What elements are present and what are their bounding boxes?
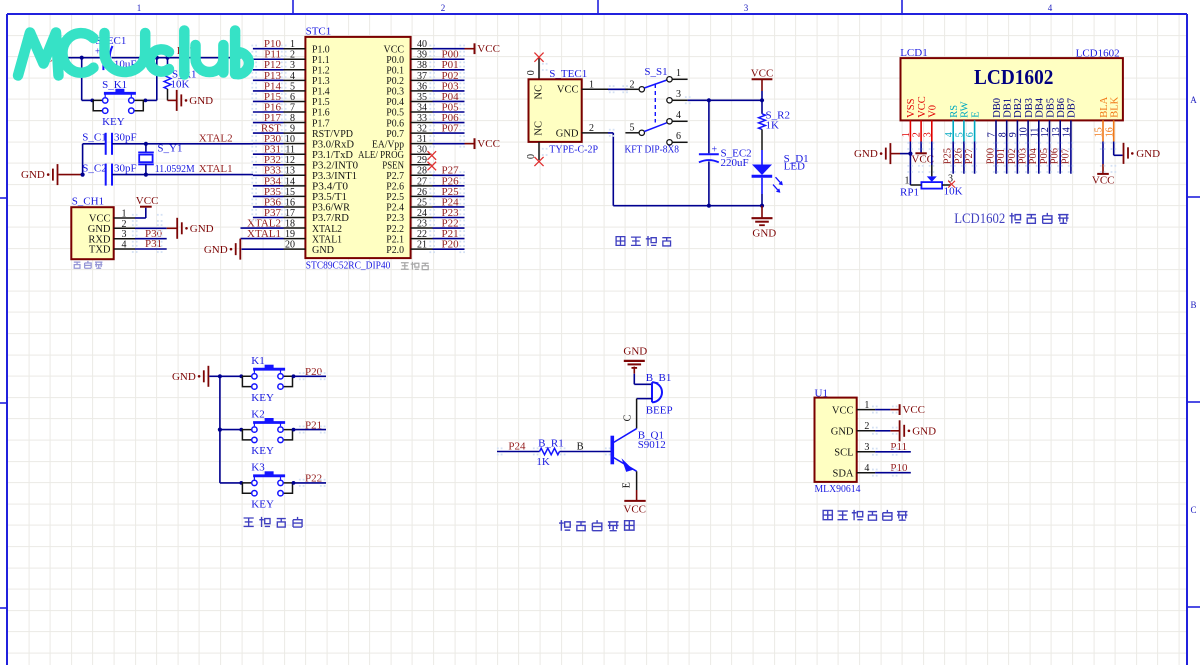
switch S_S1 pole 2 bbox=[625, 88, 638, 90]
switch S_S1 throw 4 bbox=[667, 119, 672, 124]
svg-text:B_B1: B_B1 bbox=[646, 372, 672, 384]
svg-text:9: 9 bbox=[1008, 132, 1019, 137]
svg-text:KEY: KEY bbox=[102, 116, 125, 128]
LCD pin 8 wire net P01 bbox=[1006, 142, 1008, 174]
svg-text:11.0592M: 11.0592M bbox=[155, 163, 195, 175]
power port VCC (MCU pin 40) bbox=[474, 43, 476, 54]
svg-text:P3.6/WR: P3.6/WR bbox=[312, 203, 350, 214]
svg-text:220uF: 220uF bbox=[721, 157, 749, 169]
svg-text:GND: GND bbox=[556, 129, 579, 140]
wire TEC1 GND down-right bbox=[608, 132, 613, 134]
svg-text:K1: K1 bbox=[251, 355, 264, 367]
svg-text:30pF: 30pF bbox=[114, 132, 137, 144]
svg-text:BLK: BLK bbox=[1110, 96, 1121, 117]
key K2 actuator bar bbox=[253, 421, 285, 424]
key K2 contacts bbox=[242, 430, 251, 440]
svg-text:VCC: VCC bbox=[477, 43, 500, 55]
svg-text:LCD1: LCD1 bbox=[900, 47, 928, 59]
svg-text:S_C2: S_C2 bbox=[82, 163, 106, 175]
svg-text:P1.7: P1.7 bbox=[312, 118, 330, 129]
svg-text:VSS: VSS bbox=[906, 98, 917, 117]
svg-text:P27: P27 bbox=[964, 148, 975, 164]
svg-text:3: 3 bbox=[864, 442, 869, 453]
sensor U1 MLX90614 body bbox=[815, 398, 857, 482]
wire P24 to base resistor bbox=[497, 451, 540, 453]
resistor S_R1 10K bbox=[167, 58, 169, 71]
U1 pin2 wire to GND bbox=[875, 430, 890, 432]
power port VCC (LCD) bbox=[915, 152, 926, 154]
svg-text:LCD1602: LCD1602 bbox=[954, 211, 1005, 227]
wire VCC to EC1 bbox=[63, 57, 104, 59]
svg-text:P07: P07 bbox=[442, 123, 460, 135]
svg-text:C: C bbox=[1190, 505, 1196, 515]
RP1 pin 3 bbox=[942, 184, 951, 186]
svg-text:P3.5/T1: P3.5/T1 bbox=[312, 192, 347, 203]
svg-text:P2.6: P2.6 bbox=[386, 182, 404, 193]
capacitor S_C1 30pF bbox=[105, 133, 107, 155]
LCD pin2 VCC wire bbox=[920, 142, 922, 154]
svg-text:STC89C52RC_DIP40: STC89C52RC_DIP40 bbox=[306, 259, 391, 271]
wire to K3 bbox=[220, 482, 243, 484]
LCD pin 7 wire net P00 bbox=[995, 142, 997, 174]
no-ERC cross TEC1 top pin bbox=[538, 58, 540, 80]
ground GND (S_CH1) bbox=[176, 218, 178, 239]
svg-text:P20: P20 bbox=[442, 239, 460, 251]
svg-text:10: 10 bbox=[1019, 127, 1030, 137]
svg-text:DB5: DB5 bbox=[1045, 98, 1056, 118]
svg-text:A: A bbox=[1190, 95, 1197, 105]
svg-text:GND: GND bbox=[172, 371, 196, 383]
caption buzzer circuit bbox=[559, 520, 570, 531]
svg-text:P10: P10 bbox=[890, 462, 908, 474]
svg-text:P2.0: P2.0 bbox=[386, 245, 404, 256]
key K1 contacts bbox=[242, 376, 251, 386]
svg-text:7: 7 bbox=[987, 132, 998, 137]
svg-text:NC: NC bbox=[534, 121, 545, 136]
wire to K1 bbox=[220, 375, 243, 377]
wire EC1 to RST net bbox=[112, 57, 246, 59]
svg-text:XTAL2: XTAL2 bbox=[312, 224, 342, 235]
switch S_S1 pole 5 bbox=[625, 132, 638, 134]
wire XTAL2 net bbox=[112, 143, 253, 145]
LCD pin 10 wire net P03 bbox=[1027, 142, 1029, 174]
svg-text:GND: GND bbox=[854, 148, 878, 160]
svg-text:P03: P03 bbox=[1018, 148, 1029, 164]
svg-text:DB3: DB3 bbox=[1024, 98, 1035, 118]
svg-text:P3.2/INT0: P3.2/INT0 bbox=[312, 160, 358, 171]
switch S_S1 throw 6 bbox=[667, 140, 672, 145]
LCD pin3 V0 wire to RP1 wiper bbox=[931, 142, 933, 166]
svg-text:S_CH1: S_CH1 bbox=[72, 196, 104, 208]
crystal S_Y1 11.0592M bbox=[145, 144, 147, 153]
svg-text:RS: RS bbox=[949, 105, 960, 118]
svg-text:4: 4 bbox=[864, 463, 869, 474]
connector S_CH1 body bbox=[71, 207, 113, 259]
svg-text:VCC: VCC bbox=[902, 404, 925, 416]
potentiometer RP1 wiper arrow bbox=[927, 176, 937, 182]
wire to C1 bbox=[83, 143, 106, 145]
svg-text:S_C1: S_C1 bbox=[82, 132, 106, 144]
svg-text:XTAL1: XTAL1 bbox=[312, 234, 342, 245]
svg-text:DB1: DB1 bbox=[1003, 98, 1014, 118]
svg-text:10K: 10K bbox=[944, 186, 963, 198]
svg-text:P21: P21 bbox=[305, 419, 322, 431]
svg-text:4: 4 bbox=[1048, 3, 1053, 13]
svg-text:P3.7/RD: P3.7/RD bbox=[312, 213, 349, 224]
svg-text:VCC: VCC bbox=[917, 96, 928, 118]
svg-text:BLA: BLA bbox=[1099, 96, 1110, 117]
svg-text:VCC: VCC bbox=[557, 85, 579, 96]
ground GND (power circuit) bbox=[761, 206, 763, 219]
wire K1 to net P20 bbox=[293, 375, 327, 377]
wire to key left contact bbox=[82, 99, 93, 101]
switch S_S1 throw 1 bbox=[667, 77, 672, 82]
svg-text:P0.6: P0.6 bbox=[386, 118, 404, 129]
svg-text:STC1: STC1 bbox=[306, 25, 332, 37]
ground GND (LCD backlight) bbox=[1123, 143, 1125, 164]
svg-text:12: 12 bbox=[1040, 127, 1051, 137]
LCD1602 body bbox=[901, 58, 1123, 120]
wire XTAL1 net bbox=[112, 174, 253, 176]
svg-text:DB2: DB2 bbox=[1013, 98, 1024, 118]
svg-text:LCD1602: LCD1602 bbox=[974, 65, 1053, 89]
svg-text:S9012: S9012 bbox=[638, 439, 666, 451]
ground GND (MCU pin20) bbox=[239, 239, 241, 260]
svg-text:GND: GND bbox=[189, 95, 213, 107]
svg-text:GND: GND bbox=[204, 244, 228, 256]
svg-text:P24: P24 bbox=[508, 441, 526, 453]
svg-text:GND: GND bbox=[88, 224, 111, 235]
ground GND (reset) bbox=[168, 99, 177, 101]
wire keys ground rail bbox=[219, 376, 221, 483]
svg-text:S_K1: S_K1 bbox=[102, 79, 127, 91]
svg-text:P02: P02 bbox=[1007, 148, 1018, 164]
LCD pin 14 wire net P07 bbox=[1070, 142, 1072, 174]
svg-text:3: 3 bbox=[744, 3, 749, 13]
svg-text:P05: P05 bbox=[1039, 148, 1050, 164]
svg-text:10K: 10K bbox=[171, 79, 190, 91]
LCD pin 11 wire net P04 bbox=[1038, 142, 1040, 174]
svg-text:30pF: 30pF bbox=[114, 163, 137, 175]
LCD pin16 BLK wire to GND bbox=[1113, 142, 1115, 156]
svg-text:P2.3: P2.3 bbox=[386, 213, 404, 224]
svg-text:P3.3/INT1: P3.3/INT1 bbox=[312, 171, 357, 182]
no-ERC cross pin 29 bbox=[428, 162, 437, 171]
svg-text:XTAL1: XTAL1 bbox=[247, 228, 281, 240]
svg-text:S_Y1: S_Y1 bbox=[157, 143, 182, 155]
junction dots reset rail bbox=[80, 56, 84, 60]
svg-text:P20: P20 bbox=[305, 366, 323, 378]
svg-text:TXD: TXD bbox=[89, 245, 111, 256]
wire from key right contact bbox=[145, 99, 157, 101]
wire power bottom rail bbox=[613, 205, 762, 207]
power port VCC (S_CH1) bbox=[140, 206, 152, 208]
svg-text:B: B bbox=[577, 442, 584, 453]
svg-text:MLX90614: MLX90614 bbox=[815, 483, 861, 495]
S_CH1 pin1 wire to VCC bbox=[135, 217, 146, 219]
svg-text:P3.0/RxD: P3.0/RxD bbox=[312, 139, 354, 150]
no-ERC cross pin 30 bbox=[428, 151, 437, 160]
svg-text:P22: P22 bbox=[305, 473, 322, 485]
svg-text:P1.0: P1.0 bbox=[312, 44, 330, 55]
svg-text:LED: LED bbox=[784, 161, 805, 173]
svg-text:V0: V0 bbox=[928, 105, 939, 118]
svg-text:4: 4 bbox=[944, 132, 955, 137]
svg-text:1: 1 bbox=[676, 68, 681, 79]
svg-text:DB0: DB0 bbox=[992, 98, 1003, 118]
LCD pin 12 wire net P05 bbox=[1049, 142, 1051, 174]
svg-text:DB6: DB6 bbox=[1056, 98, 1067, 118]
power port VCC (buzzer) bbox=[624, 500, 645, 502]
U1 pin4 wire net P10 bbox=[875, 472, 911, 474]
svg-text:P0.7: P0.7 bbox=[386, 129, 404, 140]
svg-text:VCC: VCC bbox=[751, 68, 774, 80]
svg-text:DB4: DB4 bbox=[1035, 97, 1046, 118]
svg-text:VCC: VCC bbox=[384, 44, 405, 55]
wire buzzer to collector bbox=[637, 398, 652, 400]
svg-text:E: E bbox=[970, 111, 981, 117]
svg-text:P1.4: P1.4 bbox=[312, 87, 330, 98]
svg-text:VCC: VCC bbox=[1092, 175, 1115, 187]
wire ground to buzzer bbox=[633, 374, 635, 385]
svg-text:2: 2 bbox=[589, 123, 594, 134]
wire emitter to VCC bbox=[636, 471, 638, 490]
svg-text:P00: P00 bbox=[985, 148, 996, 164]
caption power circuit bbox=[616, 237, 625, 246]
switch S_S1 throw 3 bbox=[667, 98, 672, 103]
U1 pin3 wire net P11 bbox=[875, 451, 911, 453]
svg-text:4: 4 bbox=[122, 240, 127, 251]
svg-text:P2.5: P2.5 bbox=[386, 192, 404, 203]
svg-text:13: 13 bbox=[1051, 127, 1062, 137]
svg-text:+: + bbox=[712, 144, 718, 155]
svg-text:16: 16 bbox=[1104, 127, 1115, 137]
svg-text:GND: GND bbox=[190, 223, 214, 235]
svg-text:K3: K3 bbox=[251, 462, 265, 474]
transistor B_Q1 S9012 PNP bbox=[610, 436, 614, 465]
svg-text:DB7: DB7 bbox=[1067, 98, 1078, 118]
svg-text:0: 0 bbox=[526, 154, 537, 159]
svg-text:8: 8 bbox=[997, 132, 1008, 137]
key S_K1 contacts bbox=[93, 100, 102, 110]
svg-text:S_TEC1: S_TEC1 bbox=[549, 68, 587, 80]
svg-text:ALE/ PROG: ALE/ PROG bbox=[358, 150, 404, 161]
svg-text:GND: GND bbox=[752, 228, 776, 240]
svg-text:RP1: RP1 bbox=[900, 186, 919, 198]
svg-text:GND: GND bbox=[1136, 148, 1160, 160]
svg-text:PSEN: PSEN bbox=[382, 160, 404, 171]
U1 pin1 wire to VCC bbox=[875, 409, 890, 411]
svg-text:1: 1 bbox=[589, 80, 594, 91]
svg-text:E: E bbox=[622, 482, 633, 488]
svg-text:KFT DIP-8X8: KFT DIP-8X8 bbox=[625, 144, 680, 156]
LCD pin 4 wire net P25 bbox=[952, 142, 954, 174]
svg-text:1: 1 bbox=[137, 3, 142, 13]
svg-text:KEY: KEY bbox=[251, 392, 274, 404]
svg-text:15: 15 bbox=[1094, 127, 1105, 137]
caption download port bbox=[74, 262, 81, 268]
svg-text:P26: P26 bbox=[953, 148, 964, 164]
key K3 contacts bbox=[242, 483, 251, 493]
svg-text:EA/Vpp: EA/Vpp bbox=[372, 139, 404, 150]
svg-text:P1.2: P1.2 bbox=[312, 66, 330, 77]
svg-text:P1.3: P1.3 bbox=[312, 76, 330, 87]
LCD pin 5 wire net P26 bbox=[963, 142, 965, 174]
caption MCU (danpianji) bbox=[401, 263, 409, 269]
svg-text:RW: RW bbox=[960, 101, 971, 117]
svg-text:P0.2: P0.2 bbox=[386, 76, 404, 87]
wire to K2 bbox=[220, 429, 243, 431]
svg-text:P1.1: P1.1 bbox=[312, 55, 330, 66]
svg-text:XTAL1: XTAL1 bbox=[199, 163, 233, 175]
svg-text:KEY: KEY bbox=[251, 445, 274, 457]
svg-text:VCC: VCC bbox=[832, 405, 854, 416]
svg-text:P2.2: P2.2 bbox=[386, 224, 404, 235]
svg-text:P2.7: P2.7 bbox=[386, 171, 404, 182]
svg-text:TYPE-C-2P: TYPE-C-2P bbox=[549, 144, 598, 156]
wire base bbox=[560, 451, 611, 453]
top margin zone ticks bbox=[292, 0, 294, 14]
capacitor S_C2 30pF bbox=[105, 164, 107, 186]
svg-text:11: 11 bbox=[1029, 128, 1040, 138]
svg-text:1K: 1K bbox=[536, 456, 550, 468]
ground GND (LCD VSS) bbox=[889, 143, 891, 164]
caption infrared temperature module bbox=[823, 510, 832, 519]
resistor S_R2 1K bbox=[761, 100, 763, 114]
svg-text:VCC: VCC bbox=[623, 504, 646, 516]
svg-text:SDA: SDA bbox=[832, 468, 853, 479]
svg-text:KEY: KEY bbox=[251, 499, 274, 511]
svg-text:RST/VPD: RST/VPD bbox=[312, 129, 353, 140]
potentiometer RP1 body bbox=[921, 182, 942, 189]
LCD pin15 BLA wire to VCC bbox=[1102, 142, 1104, 165]
svg-text:4: 4 bbox=[676, 110, 681, 121]
svg-text:1: 1 bbox=[901, 132, 912, 137]
ground GND (U1) bbox=[899, 420, 901, 441]
ground GND (keys) bbox=[207, 366, 209, 387]
svg-text:P31: P31 bbox=[145, 238, 162, 250]
svg-text:1: 1 bbox=[905, 175, 910, 186]
LCD pin 6 wire net P27 bbox=[974, 142, 976, 174]
svg-text:S_S1: S_S1 bbox=[644, 66, 667, 78]
key S_K1 actuator bar bbox=[104, 92, 136, 95]
svg-text:NC: NC bbox=[534, 85, 545, 100]
svg-text:P0.5: P0.5 bbox=[386, 108, 404, 119]
ground GND (crystal) bbox=[57, 164, 59, 185]
power port VCC (U1) bbox=[899, 404, 901, 415]
svg-text:P2.1: P2.1 bbox=[386, 234, 404, 245]
svg-text:2: 2 bbox=[441, 3, 446, 13]
svg-text:GND: GND bbox=[21, 169, 45, 181]
MCU STC89C52 body bbox=[305, 37, 410, 258]
wire K2 to net P21 bbox=[293, 429, 327, 431]
svg-text:P3.4/T0: P3.4/T0 bbox=[312, 182, 348, 193]
svg-text:GND: GND bbox=[912, 425, 936, 437]
key K3 actuator bar bbox=[253, 474, 285, 477]
svg-text:GND: GND bbox=[312, 245, 334, 256]
svg-text:P01: P01 bbox=[996, 148, 1007, 164]
svg-text:VCC: VCC bbox=[911, 153, 934, 165]
svg-text:VCC: VCC bbox=[136, 195, 159, 207]
svg-text:P11: P11 bbox=[890, 441, 907, 453]
resistor B_R1 1K bbox=[540, 448, 560, 454]
svg-text:P1.5: P1.5 bbox=[312, 97, 330, 108]
svg-text:K2: K2 bbox=[251, 408, 264, 420]
svg-text:BEEP: BEEP bbox=[646, 405, 673, 417]
svg-text:P2.4: P2.4 bbox=[386, 203, 404, 214]
wire key right branch bbox=[156, 58, 158, 101]
MCUclub logo bbox=[18, 31, 249, 76]
connector S_TEC1 body TYPE-C-2P bbox=[529, 79, 582, 142]
svg-text:14: 14 bbox=[1062, 127, 1073, 137]
svg-text:1: 1 bbox=[864, 400, 869, 411]
power port VCC (MCU pin 31) bbox=[474, 138, 476, 149]
switch S_S1 lever top bbox=[644, 80, 667, 88]
caption keys circuit bbox=[244, 518, 254, 526]
buzzer B_B1 BEEP bbox=[651, 382, 653, 402]
LCD pin 13 wire net P06 bbox=[1059, 142, 1061, 174]
wire key left branch bbox=[81, 58, 83, 101]
svg-text:1K: 1K bbox=[766, 119, 780, 131]
side margin zone ticks bbox=[0, 197, 7, 199]
switch S_S1 lever bottom bbox=[644, 123, 667, 132]
S_CH1 pin3 wire P30 bbox=[135, 238, 167, 240]
svg-text:3: 3 bbox=[676, 89, 681, 100]
svg-text:2: 2 bbox=[864, 421, 869, 432]
svg-text:3: 3 bbox=[922, 132, 933, 137]
no-ERC cross TEC1 bottom pin bbox=[538, 142, 540, 160]
wire K3 to net P22 bbox=[293, 482, 327, 484]
wire switch to VCC rail bbox=[688, 99, 762, 101]
svg-text:2: 2 bbox=[630, 79, 635, 90]
svg-text:XTAL2: XTAL2 bbox=[199, 132, 233, 144]
svg-text:6: 6 bbox=[676, 131, 681, 142]
svg-text:P1.6: P1.6 bbox=[312, 108, 330, 119]
capacitor S_EC1 10uF polarized bbox=[102, 45, 104, 70]
svg-text:SCL: SCL bbox=[834, 448, 853, 459]
switch S_S1 gang dashed link bbox=[654, 84, 656, 123]
LED S_D1 bbox=[761, 150, 763, 165]
S_CH1 pin4 wire P31 bbox=[135, 248, 167, 250]
svg-text:P06: P06 bbox=[1050, 148, 1061, 164]
svg-text:P0.1: P0.1 bbox=[386, 66, 404, 77]
svg-text:VCC: VCC bbox=[477, 138, 500, 150]
power port VCC (LCD backlight) bbox=[1097, 173, 1109, 175]
svg-text:GND: GND bbox=[831, 427, 854, 438]
svg-text:5: 5 bbox=[630, 123, 635, 134]
svg-text:P0.4: P0.4 bbox=[386, 97, 404, 108]
svg-text:B: B bbox=[1190, 300, 1196, 310]
svg-text:0: 0 bbox=[526, 70, 537, 75]
RP1 pin 1 bbox=[909, 154, 911, 185]
S_CH1 pin2 wire to GND bbox=[135, 227, 167, 229]
wire crystal left rail bbox=[82, 144, 84, 175]
LCD pin 9 wire net P02 bbox=[1016, 142, 1018, 174]
svg-text:P0.3: P0.3 bbox=[386, 87, 404, 98]
compile mask dots bbox=[132, 45, 1116, 487]
LCD pin1 VSS wire to GND bbox=[909, 142, 911, 154]
key K1 actuator bar bbox=[253, 368, 285, 371]
svg-text:2: 2 bbox=[912, 132, 923, 137]
svg-text:P07: P07 bbox=[1060, 148, 1071, 164]
svg-text:C: C bbox=[623, 414, 634, 421]
svg-text:P25: P25 bbox=[943, 148, 954, 164]
svg-text:5: 5 bbox=[955, 132, 966, 137]
svg-text:6: 6 bbox=[965, 132, 976, 137]
svg-text:P0.0: P0.0 bbox=[386, 55, 404, 66]
svg-text:2: 2 bbox=[122, 219, 127, 230]
svg-text:GND: GND bbox=[623, 345, 647, 357]
